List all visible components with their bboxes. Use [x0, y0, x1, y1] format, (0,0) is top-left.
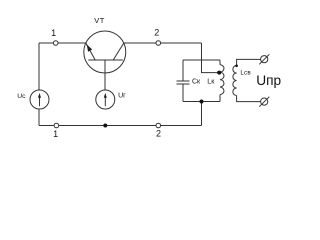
- source Ug: [96, 90, 115, 109]
- capacitor Ck: [177, 60, 190, 102]
- junction dot bottom wire: [103, 124, 107, 128]
- wire tank top rail: [183, 59, 220, 61]
- wire tank bottom rail: [183, 101, 220, 103]
- svg-text:1: 1: [51, 28, 56, 38]
- svg-text:Uг: Uг: [118, 93, 126, 100]
- svg-text:1: 1: [53, 129, 58, 139]
- wire tank bottom riser: [201, 102, 203, 126]
- wire collector feed to coil tap: [202, 43, 219, 73]
- inductor Lk: [220, 60, 224, 102]
- svg-text:Uc: Uc: [17, 93, 26, 100]
- terminal bottom output: [259, 97, 269, 107]
- node 2 bottom: [156, 123, 161, 128]
- source Uc: [30, 90, 49, 109]
- transistor VT: [84, 31, 126, 91]
- polarity dot Lsv: [235, 65, 238, 68]
- svg-text:2: 2: [156, 129, 161, 139]
- wire left vertical: [38, 43, 40, 126]
- svg-text:VT: VT: [94, 16, 105, 25]
- inductor Lsv: [233, 59, 261, 101]
- wire top-left horizontal: [39, 42, 86, 44]
- node 2 top: [156, 41, 161, 46]
- svg-text:2: 2: [154, 28, 159, 38]
- tap junction dot on Lk: [217, 71, 221, 75]
- svg-text:Lсв: Lсв: [240, 70, 251, 77]
- wire top-right horizontal: [124, 42, 202, 44]
- svg-text:Lк: Lк: [207, 79, 215, 86]
- junction dot bottom rail: [200, 100, 204, 104]
- svg-text:Uпр: Uпр: [256, 73, 281, 88]
- svg-text:Cк: Cк: [192, 79, 201, 86]
- node 1 top: [53, 41, 58, 46]
- wire bottom horizontal: [39, 125, 202, 127]
- node 1 bottom: [54, 123, 59, 128]
- terminal top output: [259, 54, 269, 64]
